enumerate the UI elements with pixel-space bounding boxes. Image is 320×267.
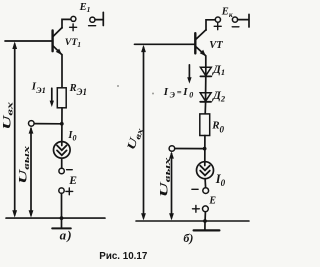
wire to ground (b) bbox=[204, 212, 206, 221]
svg-text:E: E bbox=[68, 175, 77, 187]
terminal -E (b) bbox=[203, 188, 209, 194]
terminal + of E1 bbox=[71, 16, 76, 21]
wire base input right bbox=[135, 43, 195, 45]
current arrow IE=I0 bbox=[187, 65, 191, 84]
wire to supply bar bbox=[95, 19, 102, 21]
diode D2 bbox=[200, 93, 211, 102]
current source I0 (b) bbox=[197, 162, 214, 179]
measure arrow Uvyx (a) bbox=[29, 126, 34, 217]
terminal output (a) bbox=[29, 121, 35, 127]
minus sign bbox=[192, 188, 198, 190]
diode D1 bbox=[200, 67, 211, 76]
wire source to terminal bbox=[61, 158, 63, 168]
wire to supply bar (b) bbox=[238, 19, 249, 21]
svg-text:а): а) bbox=[60, 227, 73, 242]
minus sign bbox=[232, 26, 239, 28]
speck noise 1 bbox=[117, 85, 119, 87]
plus sign bbox=[193, 205, 200, 212]
node junction out (b) bbox=[203, 147, 207, 151]
ground rail (b) bbox=[136, 220, 249, 222]
measure arrow Uvyx (b) bbox=[169, 151, 174, 220]
plus sign bbox=[70, 24, 77, 31]
node junction out (a) bbox=[60, 122, 64, 126]
supply bar (b) bbox=[248, 14, 250, 27]
wire collector up to supply bbox=[62, 19, 71, 28]
wire to ground (a) bbox=[61, 193, 63, 217]
wire emitter to diode D1 bbox=[205, 56, 207, 68]
wire collector up to supply (b) bbox=[206, 20, 215, 30]
minus sign bbox=[89, 25, 96, 27]
wire D1 to D2 bbox=[205, 76, 207, 92]
svg-text:VT: VT bbox=[209, 40, 223, 51]
terminal output (b) bbox=[169, 146, 175, 152]
minus sign bbox=[67, 169, 73, 171]
terminal - of E1 bbox=[90, 17, 95, 22]
svg-text:Рис. 10.17: Рис. 10.17 bbox=[99, 251, 148, 262]
svg-text:E: E bbox=[208, 195, 216, 206]
speck noise 2 bbox=[152, 93, 154, 95]
wire base input left bbox=[5, 40, 52, 42]
wire R0 to junction bbox=[204, 136, 206, 166]
current source I0 (a) bbox=[54, 142, 71, 159]
current arrow IE1 bbox=[50, 88, 54, 107]
transistor VT bbox=[195, 30, 206, 56]
node ground junction (b) bbox=[203, 219, 207, 223]
plus sign bbox=[214, 23, 221, 30]
node ground junction (a) bbox=[60, 216, 64, 220]
supply bar bbox=[102, 12, 104, 25]
svg-text:б): б) bbox=[183, 231, 193, 245]
plus sign bbox=[66, 188, 73, 195]
wire resistor to junction bbox=[61, 108, 63, 146]
transistor VT1 bbox=[53, 28, 62, 55]
measure arrow Uvx (a) bbox=[12, 42, 17, 218]
measure arrow Uvx (b) bbox=[141, 45, 146, 221]
wire output horizontal (b) bbox=[175, 148, 203, 150]
terminal +E (a) bbox=[59, 188, 64, 193]
terminal - of Ek bbox=[232, 17, 237, 22]
resistor R0 bbox=[200, 114, 210, 136]
terminal + of Ek bbox=[215, 17, 220, 22]
wire D2 to R0 bbox=[204, 102, 206, 114]
wire emitter down bbox=[61, 55, 63, 88]
wire source to terminal (b) bbox=[204, 179, 207, 188]
wire output horizontal bbox=[34, 123, 60, 125]
ground symbol (b) bbox=[194, 221, 220, 230]
ground rail (a) bbox=[6, 217, 105, 219]
resistor RE1 bbox=[57, 88, 66, 108]
terminal -E (a) bbox=[59, 168, 64, 173]
ground symbol (a) bbox=[52, 218, 71, 228]
terminal +E (b) bbox=[203, 206, 209, 212]
